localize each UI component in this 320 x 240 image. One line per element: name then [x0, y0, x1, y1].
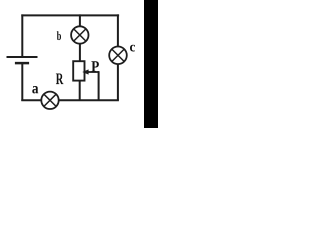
slider P arrowhead	[82, 69, 88, 74]
resistor R (rheostat box)	[73, 61, 84, 80]
wire bottom horizontal	[21, 99, 119, 101]
label R	[56, 74, 64, 85]
wire top horizontal	[21, 14, 119, 16]
black sidebar	[144, 0, 158, 128]
label b	[57, 31, 61, 40]
slider P arrow shaft	[88, 71, 99, 73]
lamp b	[71, 26, 88, 43]
battery B1 long plate	[7, 56, 38, 58]
wire resistor bottom lead	[79, 81, 81, 100]
label c	[130, 45, 135, 52]
wire slider tail vertical	[98, 71, 100, 100]
label a	[32, 86, 38, 93]
wire left vertical upper (battery top lead)	[21, 14, 23, 57]
wire lamp c branch vertical	[117, 14, 119, 100]
battery B1 short plate	[15, 62, 29, 65]
wire left vertical lower (battery bottom lead)	[21, 63, 23, 101]
lamp c	[109, 47, 127, 65]
wire lamp b branch vertical	[79, 14, 81, 61]
lamp a	[41, 92, 58, 109]
label P	[91, 61, 99, 71]
